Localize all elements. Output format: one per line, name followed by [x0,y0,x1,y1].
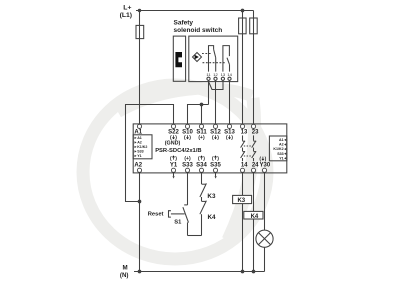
safety switch actuator box [173,36,185,81]
relay top terminal circles [137,124,255,128]
svg-text:(N): (N) [120,272,129,279]
wire S34 down [201,173,203,184]
wire fuse F2 to terminal 13 [242,11,244,125]
actuator key symbol [175,52,182,67]
svg-text:24: 24 [252,162,259,168]
feedback contact K4 [202,200,206,202]
relay top polarity labels [170,135,233,141]
junction dot node S11 [200,103,203,106]
svg-text:14: 14 [227,72,232,77]
wire node to S11 [201,105,203,125]
svg-text:A1: A1 [137,136,142,140]
mechanical dashed link contacts [244,145,252,147]
junction dot M/K3 [241,270,244,273]
wire node to S10 [188,105,209,125]
svg-text:A2: A2 [279,143,284,147]
relay contact 23-24 [252,135,257,161]
relay LED labels right [273,138,286,160]
svg-text:Reset: Reset [148,212,164,218]
svg-text:23: 23 [252,130,259,136]
wire lamp to M bus [264,247,266,271]
wire 24 to K4 coil to M bus [253,173,255,272]
wire jumper t11 to t13 [209,80,224,89]
svg-text:Safety: Safety [174,19,194,26]
switch contact 11-12 [209,46,214,72]
svg-text:Y1: Y1 [170,162,178,168]
wire 14 to K3 coil to M bus [242,173,244,272]
contactor coil K4 [244,211,263,219]
M bus [134,271,265,273]
fuse F1 [136,25,144,38]
svg-text:S33: S33 [277,152,283,156]
svg-text:13: 13 [221,72,226,77]
wire t12 to S12 [215,80,217,124]
svg-text:K3: K3 [207,193,216,200]
junction dot A2/S22 link [138,200,141,203]
junction dot L+ / fuse F2 drop [241,9,244,12]
svg-text:(+): (+) [184,156,191,162]
switch contact 13-14 [223,46,230,72]
svg-text:Y30: Y30 [260,162,271,168]
mechanical dashed link lower [203,62,226,64]
svg-text:14: 14 [241,162,248,168]
pin labels 11 12 13 14 [206,72,232,77]
wire S33 to reset switch [187,173,189,205]
switch terminal circles [207,77,210,80]
wire Y30 to lamp [264,173,266,230]
svg-text:M: M [123,264,128,271]
svg-text:PSR-SDC4/2x1/B: PSR-SDC4/2x1/B [155,148,201,154]
contactor coil K3 [233,195,252,203]
relay bottom terminal circles [137,168,266,172]
wire A2 to M bus [139,173,141,272]
svg-text:Y1: Y1 [279,156,283,160]
fuse F2 [239,18,247,34]
pushbutton actuator [169,211,171,217]
wire reset loop bottom [188,235,202,237]
svg-text:12: 12 [213,72,218,77]
actuating head inner arrow [195,55,199,60]
node L+ (L1) supply label [120,5,132,20]
svg-text:S35: S35 [210,162,221,168]
svg-text:K3: K3 [237,198,245,204]
indicator lamp H1 [256,230,273,247]
node M (N) label [120,264,129,279]
safety switch body B1 [189,36,238,82]
svg-text:S33: S33 [182,162,193,168]
svg-text:K4: K4 [251,214,259,220]
wire fuse F3 to terminal 23 [253,11,255,125]
label safety solenoid switch [174,19,223,34]
relay bottom terminal labels [134,162,271,168]
wire L+ to A1 [139,11,141,125]
svg-text:(L1): (L1) [120,12,132,19]
svg-text:13: 13 [241,130,248,136]
junction dot M/A2 [138,270,141,273]
relay LED labels left [135,136,148,158]
reset switch S1 [184,204,187,206]
wire S22 to ground link [126,105,174,202]
relay LED window right [269,136,286,161]
svg-text:S34: S34 [196,162,207,168]
relay body U1 [133,124,287,173]
wire L+ top bus [136,10,254,12]
mechanical dashed link upper [202,53,211,55]
relay LED window left [133,135,152,159]
relay top terminal labels [134,130,259,136]
svg-text:A2: A2 [134,162,142,168]
svg-text:(GND): (GND) [165,141,181,147]
svg-text:K1/K2: K1/K2 [273,147,283,151]
svg-text:A1: A1 [279,138,284,142]
watermark swirl [83,85,267,259]
wire t11 down to node [208,80,210,104]
junction dot M/K4 [252,270,255,273]
svg-text:solenoid switch: solenoid switch [174,27,223,34]
svg-text:S1: S1 [174,220,182,226]
svg-text:K4: K4 [208,214,217,221]
junction dot L+ / A1 drop [138,9,140,11]
relay contact 13-14 [241,135,246,161]
wire S35 stub [215,173,217,177]
svg-text:L+: L+ [123,5,131,12]
fuse F3 [250,18,258,34]
actuating head diamond [193,53,202,62]
relay bottom polarity labels [170,156,267,163]
wire Y1 stub [173,173,175,177]
svg-text:A2: A2 [137,141,142,145]
wire t14 to S13 [229,80,231,124]
svg-text:K1/K2: K1/K2 [137,145,147,149]
svg-text:Y1: Y1 [137,154,141,158]
feedback contact K3 [202,183,206,185]
svg-text:(+): (+) [198,135,205,141]
svg-text:S33: S33 [137,150,143,154]
